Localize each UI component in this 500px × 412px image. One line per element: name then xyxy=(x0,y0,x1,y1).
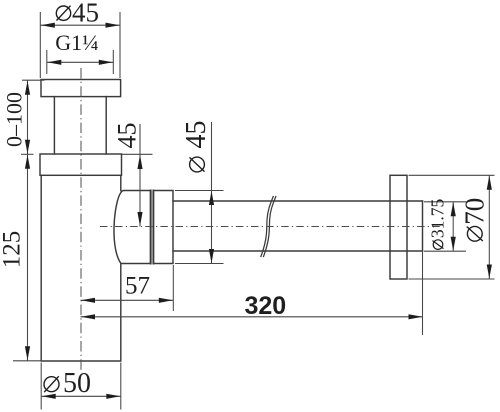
body top flange xyxy=(40,154,122,175)
dim 320 line xyxy=(81,316,423,318)
svg-text:57: 57 xyxy=(125,273,150,300)
arrowheads dim D50 xyxy=(42,394,56,399)
arrowheads dim 45 xyxy=(137,155,142,169)
arrowheads dim 0-100 xyxy=(25,81,30,95)
arrowheads dim 320 xyxy=(81,314,95,319)
dim D45 bell bottom extension xyxy=(175,263,224,265)
dim 0-100 top tick xyxy=(22,79,45,81)
svg-text:320: 320 xyxy=(244,292,286,320)
dim 125 top tick xyxy=(21,153,34,155)
dim D45 top line xyxy=(40,24,120,26)
inlet pipe xyxy=(54,97,106,154)
dim G1-1/4 extension lines xyxy=(47,50,114,74)
dim D31.75 extension lines xyxy=(424,202,466,251)
centerline vertical (body axis) xyxy=(80,68,82,370)
arrowheads dim 57 xyxy=(81,298,95,303)
label D31.75 (rotated) xyxy=(428,198,448,249)
svg-text:G1¼: G1¼ xyxy=(55,30,98,55)
arrowheads dim D45 top xyxy=(41,23,55,28)
bell/nut joint double line xyxy=(151,191,154,264)
centerline horizontal (pipe axis) xyxy=(100,226,440,228)
svg-text:45: 45 xyxy=(72,0,99,28)
svg-text:125: 125 xyxy=(0,231,26,269)
label D45 top xyxy=(56,0,99,28)
dim D50 extension lines xyxy=(41,363,121,410)
dim G1-1/4 line xyxy=(47,61,114,63)
svg-text:0–100: 0–100 xyxy=(2,92,27,147)
dim 125 bottom extension xyxy=(13,360,41,362)
dim 57 right extension xyxy=(172,265,174,311)
svg-text:45: 45 xyxy=(181,121,212,149)
dim 45 line xyxy=(139,124,141,227)
dim D70 extension lines xyxy=(409,175,495,279)
dim 45 reference tick xyxy=(122,153,153,155)
arrowheads dim D45 bell xyxy=(209,191,214,205)
dim D70 line xyxy=(488,175,490,279)
dim 57 line xyxy=(81,299,174,301)
dim D31.75 line xyxy=(452,202,454,251)
inlet cap flange xyxy=(41,80,121,97)
dim 125 line xyxy=(27,154,29,360)
dim D45 bell line xyxy=(211,122,213,264)
dim 320 right extension (pipe end produced) xyxy=(422,251,424,335)
horizontal outlet pipe xyxy=(173,201,423,251)
svg-text:70: 70 xyxy=(459,198,489,225)
svg-text:45: 45 xyxy=(113,123,142,149)
trap body xyxy=(41,175,121,361)
dim 0-100 line xyxy=(27,80,29,154)
label D70 (rotated) xyxy=(459,198,489,241)
dim D45 top extension lines xyxy=(40,12,120,78)
arrowheads dim D31.75 xyxy=(451,202,456,216)
label D45 bell (rotated) xyxy=(181,121,212,172)
pipe end edge xyxy=(422,201,424,251)
dim D45 bell top extension xyxy=(175,190,224,192)
wall flange xyxy=(390,175,407,279)
arrowheads dim D70 xyxy=(487,176,492,190)
dim D50 line xyxy=(41,395,121,397)
svg-text:50: 50 xyxy=(63,368,91,399)
compression nut xyxy=(154,191,174,264)
pipe break symbol xyxy=(261,197,273,257)
svg-text:31.75: 31.75 xyxy=(428,198,448,238)
label D50 xyxy=(44,368,91,399)
arrowheads dim 125 xyxy=(25,155,30,169)
arrowheads dim G1-1/4 xyxy=(47,60,61,65)
outlet bell xyxy=(114,191,151,264)
